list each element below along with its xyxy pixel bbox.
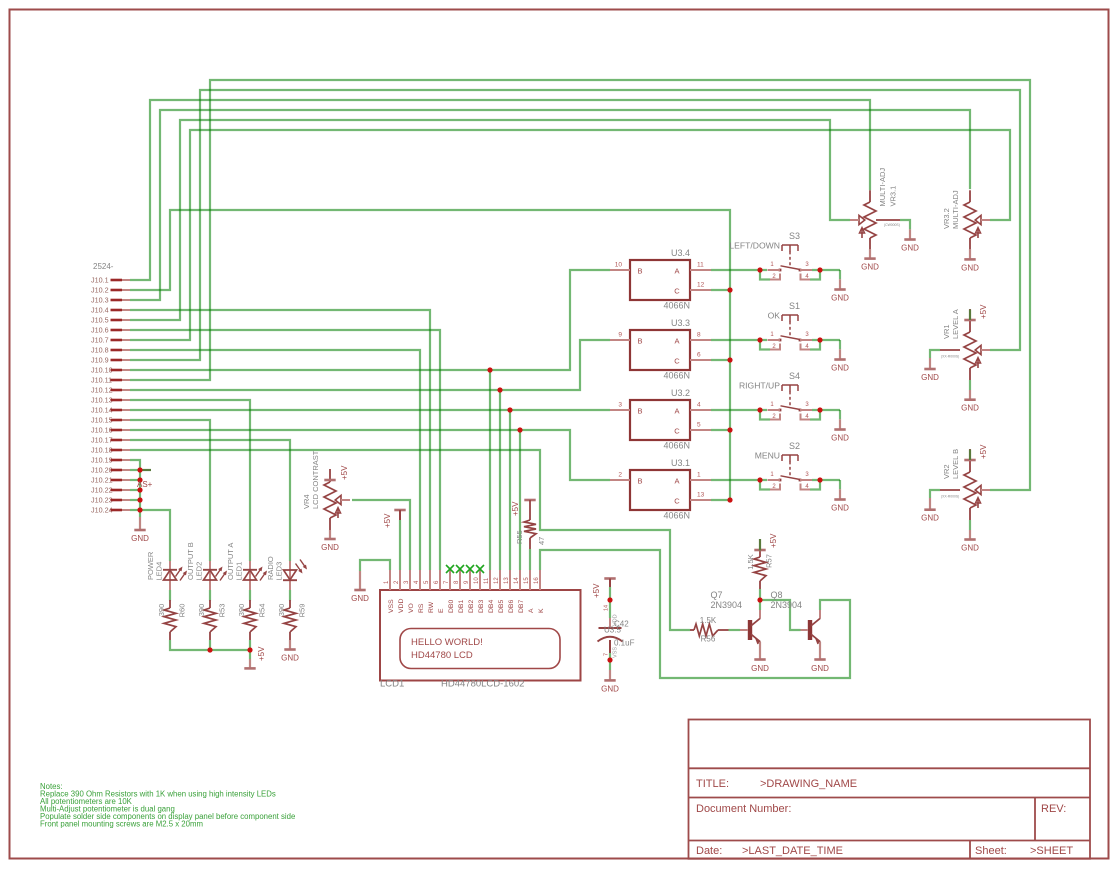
- LCD pin 7 DB0: [449, 570, 451, 590]
- wire LCD DB5 junction down to pin 12: [499, 390, 501, 570]
- U3.3 pin A 8: [690, 339, 711, 341]
- S1 left junction dot: [757, 337, 762, 342]
- LED LED4 POWER: [169, 561, 171, 590]
- U3.1 pin C 13: [690, 499, 711, 501]
- wire J10.6 to LCD E pin 6: [130, 330, 440, 570]
- svg-text:VR3.1: VR3.1: [889, 186, 898, 207]
- svg-text:GND: GND: [601, 684, 619, 693]
- svg-text:RW: RW: [428, 601, 435, 613]
- wire R60 to +5V bus: [170, 640, 250, 650]
- svg-text:B: B: [637, 477, 642, 486]
- wire J10.22 stub: [130, 489, 140, 491]
- wire J10.18 to R56 and Q7 base: [130, 450, 690, 630]
- VR4 bottom lead to GND: [329, 518, 331, 530]
- svg-text:RIGHT/UP: RIGHT/UP: [739, 381, 780, 391]
- U3.2 pin B 3: [610, 409, 630, 411]
- net overlay at VR1 +5V: [969, 310, 971, 321]
- wire J10.5 to VR3.1 wiper: [130, 120, 850, 320]
- wire LCD DB4 junction to U3.4 pin 10: [490, 270, 610, 370]
- svg-text:J10.22: J10.22: [91, 486, 113, 495]
- wire 4066 output to switch row y=480: [711, 479, 767, 481]
- wire LED2 to R53: [209, 590, 211, 601]
- Q8 emitter to ground: [819, 642, 821, 660]
- title block Sheet column divider: [969, 841, 971, 859]
- wire R56 to Q7 base: [729, 629, 741, 631]
- svg-text:J10.20: J10.20: [91, 466, 113, 475]
- wire J10.16 to LCD DB7 junction: [130, 429, 520, 431]
- svg-text:R54: R54: [258, 604, 267, 618]
- analog switch U3.4 4066N: [630, 260, 690, 300]
- svg-text:Q8: Q8: [771, 590, 783, 600]
- svg-text:14: 14: [604, 605, 610, 611]
- S4 right junction dot: [817, 407, 822, 412]
- svg-text:R56: R56: [701, 635, 716, 644]
- svg-text:Q7: Q7: [711, 590, 723, 600]
- svg-text:J10.11: J10.11: [91, 376, 112, 385]
- svg-text:B: B: [637, 267, 642, 276]
- LCD pin 3 VO: [409, 570, 411, 590]
- +5V symbol for R55: [524, 499, 535, 502]
- svg-text:GND: GND: [351, 594, 369, 603]
- wire J10.17 to LED3: [130, 440, 290, 561]
- S2 right junction dot: [817, 477, 822, 482]
- LCD pin 13 DB6: [509, 570, 511, 590]
- analog switch U3.1 4066N: [630, 470, 690, 510]
- wire C42 bottom to GND: [609, 653, 611, 670]
- svg-text:J10.16: J10.16: [91, 426, 113, 435]
- net overlay at VR2 +5V: [969, 450, 971, 461]
- svg-text:J10.17: J10.17: [91, 436, 113, 445]
- svg-text:J10.6: J10.6: [91, 326, 109, 335]
- LCD pin 15 A: [529, 570, 531, 590]
- svg-text:J10.7: J10.7: [91, 336, 109, 345]
- svg-text:AS+: AS+: [137, 480, 153, 489]
- S3 pin 2 wrap: [770, 274, 780, 280]
- no-connect cross on LCD pin 8: [456, 565, 464, 573]
- VR1 wiper arrow: [975, 345, 981, 354]
- resistor R57 1.5K: [759, 551, 761, 558]
- +5V symbol for R57: [754, 549, 765, 552]
- U3.2 pin C 5: [690, 429, 711, 431]
- svg-text:4066N: 4066N: [663, 371, 690, 381]
- svg-text:GND: GND: [831, 364, 849, 373]
- S3 pin 4 wrap: [801, 274, 811, 280]
- wire 4066 C pin to control chain y=360: [711, 359, 730, 361]
- wire switch right contact to GND stem y=270: [812, 269, 840, 271]
- LCD pin 4 RS: [419, 570, 421, 590]
- svg-text:10: 10: [474, 577, 480, 584]
- svg-text:REV:: REV:: [1041, 803, 1066, 815]
- svg-text:DB4: DB4: [488, 600, 495, 613]
- S2 pin 1: [768, 479, 781, 481]
- svg-text:C: C: [674, 497, 680, 506]
- U3.3 pin B 9: [610, 339, 630, 341]
- wire switch GND stem y=340: [839, 340, 841, 349]
- svg-text:5: 5: [697, 422, 701, 429]
- VR2 bottom lead: [969, 508, 971, 520]
- junction dot J10.22: [137, 487, 142, 492]
- wire switch pins 3-4 loop y=480: [810, 480, 820, 490]
- svg-text:47: 47: [537, 537, 546, 545]
- svg-text:B: B: [637, 407, 642, 416]
- +5V symbol for LCD VDD: [394, 509, 405, 512]
- wire J10.2 to 4066 control chain: [130, 210, 730, 500]
- wire J10.23 stub: [130, 499, 140, 501]
- svg-text:390: 390: [277, 604, 286, 617]
- U3.3 pin C 6: [690, 359, 711, 361]
- svg-text:MENU: MENU: [755, 451, 780, 461]
- S4 left junction dot: [757, 407, 762, 412]
- resistor R56 1.5K: [690, 629, 694, 631]
- potentiometer VR2 LEVEL B: [969, 449, 971, 472]
- wire J10.24 to LED4: [140, 510, 170, 561]
- junction dot J10.23: [137, 497, 142, 502]
- wire J10.20 stub: [130, 469, 140, 471]
- svg-text:4066N: 4066N: [663, 301, 690, 311]
- S2 lever: [781, 476, 801, 480]
- LED LED1 OUTPUT A: [249, 561, 251, 590]
- wire switch pins 1-2 loop y=480: [760, 480, 770, 490]
- wire LCD DB6 junction to U3.2 pin 3: [510, 409, 610, 411]
- svg-text:A: A: [674, 267, 679, 276]
- svg-text:Sheet:: Sheet:: [975, 845, 1007, 857]
- svg-text:GND: GND: [321, 543, 339, 552]
- wire J10.11 to VR2 wiper: [130, 80, 1030, 490]
- svg-text:LEVEL A: LEVEL A: [951, 309, 960, 339]
- svg-text:LCD CONTRAST: LCD CONTRAST: [311, 450, 320, 509]
- junction dot U3.2 C net: [727, 427, 732, 432]
- svg-text:+5V: +5V: [511, 501, 520, 516]
- LED LED3 RADIO: [289, 561, 291, 590]
- junction dot J10.21: [137, 477, 142, 482]
- net overlay at R57 +5V: [759, 539, 761, 551]
- wire C42 top: [609, 587, 611, 618]
- wire LED4 to R60: [169, 590, 171, 601]
- title block REV column divider: [1034, 798, 1036, 841]
- resistor R60 value 390: [169, 600, 171, 608]
- junction dot U3.4 C net: [727, 287, 732, 292]
- wire LCD DB7 junction down to pin 14: [519, 430, 521, 570]
- svg-text:14: 14: [514, 577, 520, 584]
- wire switch pins 1-2 loop y=410: [760, 410, 770, 420]
- svg-text:4066N: 4066N: [663, 511, 690, 521]
- S4 pin 2 wrap: [770, 414, 780, 420]
- svg-text:DB6: DB6: [508, 600, 515, 613]
- Q8 base pin stub: [801, 629, 808, 631]
- wire 4066 C pin to control chain y=500: [711, 499, 730, 501]
- svg-text:R53: R53: [218, 604, 227, 618]
- analog switch U3.2 4066N: [630, 400, 690, 440]
- svg-text:DB0: DB0: [448, 600, 455, 613]
- svg-text:10: 10: [615, 262, 623, 269]
- ground symbol for S1: [839, 349, 841, 359]
- wire 4066 output to switch row y=340: [711, 339, 767, 341]
- svg-text:+5V: +5V: [383, 513, 392, 528]
- svg-text:DB3: DB3: [478, 600, 485, 613]
- junction dot LCD pin 12 net: [497, 387, 502, 392]
- svg-text:C: C: [674, 357, 680, 366]
- ground below VR1: [969, 390, 971, 400]
- S1 lever: [781, 336, 801, 340]
- svg-text:S3: S3: [789, 231, 800, 241]
- transistor Q7 2N3904: [748, 620, 752, 640]
- svg-text:13: 13: [504, 577, 510, 584]
- LCD pin 8 DB1: [459, 570, 461, 590]
- S3 pin 1: [768, 269, 781, 271]
- ground symbol for S2: [839, 489, 841, 499]
- VR3.2 wiper arrow: [975, 215, 981, 224]
- svg-text:J10.8: J10.8: [91, 346, 109, 355]
- VR3.1 adjust arrow: [861, 229, 863, 238]
- wire J10.14 to LCD DB6 junction: [130, 409, 510, 411]
- LCD pin 12 DB5: [499, 570, 501, 590]
- svg-text:E: E: [438, 608, 445, 613]
- LCD1 HD44780 module box: [380, 590, 581, 681]
- svg-text:J10.18: J10.18: [91, 446, 113, 455]
- S1 right junction dot: [817, 337, 822, 342]
- LCD pin 10 DB3: [479, 570, 481, 590]
- wire R57 to junction: [759, 589, 761, 600]
- S1 pin 4 wrap: [801, 344, 811, 350]
- VR2 wiper arrow: [975, 485, 981, 494]
- junction dot at R57 Q7 Q8 node: [757, 597, 762, 602]
- junction dot LCD pin 11 net: [487, 367, 492, 372]
- wire J10.7 to VR3.2 wiper: [130, 130, 1010, 340]
- svg-text:>SHEET: >SHEET: [1030, 845, 1073, 857]
- svg-text:J10.10: J10.10: [91, 366, 113, 375]
- svg-text:U3.2: U3.2: [671, 388, 690, 398]
- svg-text:GND: GND: [131, 534, 149, 543]
- VR4 wiper arrow: [335, 495, 341, 504]
- wire LCD K pin 16 to Q8 collector loop: [540, 550, 850, 678]
- svg-text:J10.15: J10.15: [91, 416, 113, 425]
- wire LCD VO pin 3 to VR4 wiper: [352, 500, 410, 570]
- svg-text:J10.9: J10.9: [91, 356, 109, 365]
- U3.2 pin A 4: [690, 409, 711, 411]
- svg-text:LEFT/DOWN: LEFT/DOWN: [729, 241, 780, 251]
- svg-text:LCD1: LCD1: [380, 679, 404, 690]
- svg-text:(XX-R000S): (XX-R000S): [941, 495, 959, 499]
- ground symbol for LCD VSS: [359, 571, 361, 590]
- svg-text:R55: R55: [515, 530, 524, 544]
- wire J10.1 to VR3.1 top: [130, 100, 870, 280]
- VR3.2 adjust arrow: [977, 229, 979, 238]
- junction dot J10.24: [137, 507, 142, 512]
- svg-text:7: 7: [604, 653, 610, 656]
- U3.4 pin B 10: [610, 269, 630, 271]
- svg-text:VR1: VR1: [942, 324, 951, 339]
- potentiometer VR3.1 MULTI-ADJ: [869, 190, 871, 202]
- wire J10.9 to VR1 wiper: [130, 90, 1020, 360]
- title block outline: [689, 720, 1091, 859]
- wire J10.21 stub: [130, 479, 140, 481]
- svg-text:GND: GND: [831, 294, 849, 303]
- wire switch right contact to GND stem y=410: [812, 409, 840, 411]
- S1 pin 2 wrap: [770, 344, 780, 350]
- svg-text:2: 2: [618, 472, 622, 479]
- junction dot U3.3 C net: [727, 357, 732, 362]
- ground bus of connector J10.19-24: [139, 517, 141, 530]
- svg-text:4066N: 4066N: [663, 441, 690, 451]
- wire LED3 to R59: [289, 590, 291, 601]
- svg-text:J10.12: J10.12: [91, 386, 113, 395]
- wire 4066 C pin to control chain y=430: [711, 429, 730, 431]
- LCD pin 11 DB4: [489, 570, 491, 590]
- wire VR1 second pin to GND: [930, 350, 940, 358]
- LCD pin 5 RW: [429, 570, 431, 590]
- svg-text:GND: GND: [921, 373, 939, 382]
- S4 pin 3: [800, 409, 812, 411]
- VR3.1 wiper arrow: [859, 215, 865, 224]
- VR1 adjust arrow: [977, 359, 979, 368]
- svg-text:VDD: VDD: [613, 614, 619, 626]
- svg-text:2N3904: 2N3904: [711, 600, 743, 610]
- svg-text:8: 8: [697, 332, 701, 339]
- svg-text:J10.24: J10.24: [91, 506, 113, 515]
- wire J10.19 to ground bus: [130, 460, 140, 517]
- svg-text:GND: GND: [961, 263, 979, 272]
- S3 pin 3: [800, 269, 812, 271]
- S3 lever: [781, 266, 801, 270]
- svg-text:+5V: +5V: [340, 465, 349, 480]
- svg-text:U3.3: U3.3: [671, 318, 690, 328]
- S2 pin 4 wrap: [801, 484, 811, 490]
- svg-text:1: 1: [697, 472, 701, 479]
- svg-text:390: 390: [237, 604, 246, 617]
- svg-text:11: 11: [484, 577, 490, 584]
- svg-text:A: A: [674, 337, 679, 346]
- svg-text:LED4: LED4: [155, 562, 164, 581]
- S3 left junction dot: [757, 267, 762, 272]
- wire switch pins 3-4 loop y=340: [810, 340, 820, 350]
- svg-text:B: B: [637, 337, 642, 346]
- svg-text:J10.19: J10.19: [91, 456, 113, 465]
- svg-text:Document Number:: Document Number:: [696, 803, 791, 815]
- svg-text:VDD: VDD: [398, 599, 405, 613]
- wire junction to Q8 base: [760, 600, 801, 630]
- ground symbol for S4: [839, 419, 841, 429]
- potentiometer VR3.2 MULTI-ADJ: [969, 190, 971, 202]
- +5V symbol for C42: [604, 577, 615, 580]
- svg-text:OK: OK: [768, 311, 781, 321]
- wire R54 to +5V bus: [249, 640, 251, 659]
- VR3.1 bottom lead to GND: [869, 238, 871, 249]
- svg-text:2N3904: 2N3904: [771, 600, 803, 610]
- svg-text:J10.1: J10.1: [91, 276, 109, 285]
- VR3.2 bottom lead to GND: [969, 238, 971, 249]
- svg-text:6: 6: [697, 352, 701, 359]
- svg-text:2524-: 2524-: [93, 262, 114, 271]
- wire LCD DB6 junction down to pin 13: [509, 410, 511, 570]
- LED LED2 OUTPUT B: [209, 561, 211, 590]
- capacitor C42 0.1uF U3.5 supply: [609, 618, 611, 628]
- junction dot LCD pin 14 net: [517, 427, 522, 432]
- svg-text:HELLO WORLD!: HELLO WORLD!: [411, 637, 483, 648]
- svg-text:RS: RS: [418, 603, 425, 613]
- svg-text:VR2: VR2: [942, 464, 951, 479]
- svg-text:DB5: DB5: [498, 600, 505, 613]
- S1 pin 1: [768, 339, 781, 341]
- svg-text:Date:: Date:: [696, 845, 722, 857]
- wire switch GND stem y=270: [839, 270, 841, 279]
- wire J10.13 to LED1: [130, 400, 250, 561]
- U3.1 pin A 1: [690, 479, 711, 481]
- wire R55 to LCD A pin 15: [529, 549, 531, 570]
- wire LCD VSS pin 1 to GND: [360, 560, 390, 571]
- U3.1 pin B 2: [610, 479, 630, 481]
- svg-text:+5V: +5V: [257, 646, 266, 661]
- svg-text:GND: GND: [811, 664, 829, 673]
- LCD pin 9 DB2: [469, 570, 471, 590]
- title block row divider 1: [689, 767, 1091, 769]
- wire 4066 C pin to control chain y=290: [711, 289, 730, 291]
- svg-text:390: 390: [197, 604, 206, 617]
- ground for VR1 second pin: [929, 358, 931, 369]
- svg-text:R57: R57: [765, 554, 774, 568]
- S2 pin 3: [800, 479, 812, 481]
- wire J10.10 to LCD DB4 junction: [130, 369, 490, 371]
- svg-text:LED2: LED2: [195, 562, 204, 581]
- title block row divider 3: [689, 840, 1091, 842]
- svg-text:GND: GND: [831, 504, 849, 513]
- ground symbol under R59: [289, 640, 291, 650]
- wire LED1 to R54: [249, 590, 251, 601]
- svg-text:16: 16: [534, 577, 540, 584]
- svg-text:U3.1: U3.1: [671, 458, 690, 468]
- svg-text:MULTI-ADJ: MULTI-ADJ: [878, 168, 887, 207]
- junction dot LED bus at R53: [207, 647, 212, 652]
- svg-text:VO: VO: [408, 603, 415, 613]
- no-connect cross on LCD pin 9: [466, 565, 474, 573]
- resistor R53 value 390: [209, 600, 211, 608]
- svg-text:+5V: +5V: [592, 583, 601, 598]
- wire VR3.1 wiper out to GND: [900, 220, 910, 229]
- svg-text:VSS: VSS: [613, 647, 619, 658]
- wire VR2 second pin to GND: [930, 490, 940, 498]
- LCD pin 16 K: [539, 570, 541, 590]
- svg-text:1.5K: 1.5K: [746, 554, 755, 569]
- wire 4066 output to switch row y=410: [711, 409, 767, 411]
- wire J10.15 to LED2: [130, 420, 210, 561]
- svg-text:+5V: +5V: [979, 304, 988, 319]
- svg-text:A: A: [528, 608, 535, 613]
- wire junction to Q7 collector: [759, 600, 761, 610]
- title block row divider 2: [689, 797, 1091, 799]
- wire LCD DB5 junction to U3.3 pin 9: [500, 340, 610, 390]
- wire R53 to +5V bus: [209, 640, 211, 650]
- transistor Q8 2N3904: [808, 620, 812, 640]
- S1 pin 3: [800, 339, 812, 341]
- net stub AS+ at J10.20: [140, 469, 151, 471]
- svg-text:>LAST_DATE_TIME: >LAST_DATE_TIME: [742, 845, 843, 857]
- wire J10.24 stub: [130, 509, 140, 511]
- svg-text:(XX-R000S): (XX-R000S): [941, 355, 959, 359]
- svg-text:(CW000S): (CW000S): [884, 223, 900, 227]
- LCD pin 6 E: [439, 570, 441, 590]
- svg-text:DB2: DB2: [468, 600, 475, 613]
- no-connect cross on LCD pin 7: [446, 565, 454, 573]
- svg-text:K: K: [538, 608, 545, 613]
- wire switch pins 1-2 loop y=270: [760, 270, 770, 280]
- svg-text:J10.21: J10.21: [91, 476, 113, 485]
- resistor R54 value 390: [249, 600, 251, 608]
- VR4 adjust arrow: [337, 509, 339, 518]
- LCD pin 1 VSS: [389, 570, 391, 590]
- wire VR2 bottom to GND: [969, 520, 971, 530]
- S2 pin 2 wrap: [770, 484, 780, 490]
- svg-text:15: 15: [524, 577, 530, 584]
- svg-text:C: C: [674, 287, 680, 296]
